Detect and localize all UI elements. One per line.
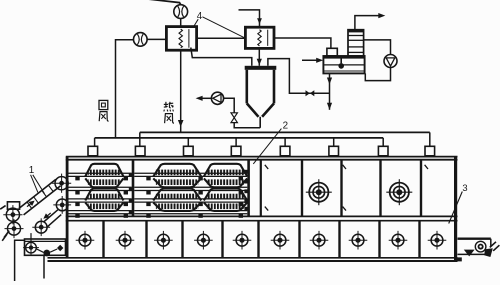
tension roller (solid) [43, 250, 50, 257]
svg-text:3: 3 [462, 182, 467, 193]
material lens col2 row1 [153, 164, 201, 177]
material lens col2 row2 [153, 189, 201, 201]
wire: exhaust to top-left [146, 0, 181, 5]
chamber wall x=380.5 [379, 160, 381, 217]
lower cell wall x=379.5 [378, 221, 380, 258]
tail bracket [7, 202, 19, 209]
roof vent stub x=236.1 [231, 146, 241, 156]
tail pulley A [6, 208, 19, 221]
roof vent stub x=188.3 [184, 146, 194, 156]
wire: hot air duct down to dryer [180, 50, 182, 132]
take-up frame [25, 239, 66, 255]
roof vent stub x=140.2 [135, 146, 145, 156]
valve V1 (solid bowtie) [306, 90, 310, 96]
lower cell wall x=258.5 [257, 221, 259, 258]
roof vent stub x=429.8 [425, 146, 435, 156]
lower cell wall x=182.5 [181, 221, 183, 258]
pump P1 (circle-triangle) [211, 92, 223, 104]
lower blower symbol x=125.0 [119, 234, 131, 246]
material lens col1 row1 [85, 164, 123, 177]
incline cleat ticks [27, 202, 32, 209]
roof vent stub x=92.8 [88, 146, 98, 156]
lower cell wall x=339.5 [338, 221, 340, 258]
pump P2 (circle-triangle) [384, 55, 397, 68]
mid pulley [56, 199, 68, 211]
material lens col3 row2 [204, 189, 247, 201]
fan target symbol (upper cell A) [309, 183, 328, 202]
fan B1 (return air blower) [134, 33, 148, 47]
wire: header riser x=188.3 [187, 138, 189, 146]
third pulley [35, 221, 47, 233]
lower blower symbol x=358.0 [352, 234, 364, 246]
lower blower symbol x=163.4 [158, 234, 170, 246]
wire: heater 4b to condenser small box [274, 38, 331, 48]
tray end tabs on walls [244, 170, 248, 174]
lower blower symbol x=242.0 [236, 234, 248, 246]
hatch strokes [490, 242, 496, 248]
lower cell wall x=299.5 [298, 221, 300, 258]
dryer top band [66, 156, 458, 158]
wire: fan B1 to heater [147, 38, 166, 40]
svg-text:2: 2 [283, 120, 288, 131]
lower blower symbol x=85.0 [79, 234, 91, 246]
chamber wall x=133.0 [132, 160, 135, 217]
wire: heater 4a to heater 4b [197, 37, 246, 39]
belt path lines [36, 249, 43, 253]
wire: cyclone vent to drain line [268, 59, 330, 94]
roof vent stub x=383.2 [378, 146, 388, 156]
wire: vessel drain with arrows [329, 73, 331, 109]
wire: heater 4b down to cyclone, with arrow [258, 48, 260, 65]
wire: header riser x=285.1 [284, 138, 286, 146]
heater box 4 (right) [245, 27, 274, 48]
material lens col1 row2 [85, 189, 123, 201]
wire: return air duct [116, 40, 134, 138]
chamber wall x=260.8 [260, 160, 262, 217]
weld tick marks [265, 165, 268, 169]
lower blower symbol x=398.0 [392, 234, 404, 246]
lower cell wall x=103.5 [102, 221, 104, 258]
dryer right wall [454, 157, 457, 261]
belt arrow down [43, 213, 49, 218]
discharge conveyor frame [458, 237, 491, 239]
wire: header riser x=236.1 [235, 138, 237, 146]
finned stack on vessel [348, 30, 364, 56]
cyclone separator [245, 66, 277, 70]
condensate vessel [323, 56, 364, 73]
wire: pump P1 discharge [200, 97, 212, 99]
chamber wall x=248.6 [247, 160, 250, 217]
scraper (solid) [464, 250, 475, 257]
label: return air (hui feng) [99, 100, 108, 109]
label: hot air (re feng) [164, 103, 168, 105]
vessel float fitting [338, 63, 344, 69]
belt arrow up [28, 201, 34, 206]
valve V2 (vertical) [231, 118, 237, 123]
lower incline rails [44, 210, 58, 222]
chamber wall x=341.5 [340, 160, 342, 217]
roof vent stub x=333.7 [329, 146, 339, 156]
wire: heater 4a to cyclone lid [191, 48, 252, 66]
wire: pump P2 return to vessel [365, 68, 390, 81]
wire: inlet arrow into vessel [302, 59, 320, 61]
lower blower symbol x=437.0 [431, 234, 443, 246]
dryer bottom band [48, 257, 458, 259]
wire: stack to pump [364, 40, 391, 55]
lower cell wall x=222.5 [221, 221, 223, 258]
discharge pulley [475, 241, 486, 252]
discharge stream [484, 248, 493, 257]
dryer mid band [66, 215, 458, 217]
heater box 4 (left) [166, 27, 196, 51]
incline rails [19, 179, 56, 208]
dryer foot [455, 257, 462, 261]
upper air header [140, 131, 430, 133]
tray support tabs [75, 176, 79, 180]
svg-text:1: 1 [29, 165, 34, 176]
fan target symbol (upper cell B) [390, 183, 409, 202]
lower blower symbol x=203.4 [198, 234, 210, 246]
chute marks [4, 231, 9, 238]
wire: header riser x=333.7 [333, 138, 335, 146]
chamber wall x=302.0 [301, 160, 303, 217]
wire: fresh air inlet to heater 4b [239, 10, 260, 27]
lower cell wall x=419.5 [418, 221, 420, 258]
wire: cyclone underflow pipe [234, 123, 260, 128]
fitting box on vessel top [327, 48, 337, 56]
guide block (diamond) [57, 245, 63, 251]
dryer left wall [66, 157, 69, 258]
take-up roller [26, 242, 37, 253]
head pulley [55, 177, 68, 190]
wire: heater to top fan [180, 18, 182, 26]
fan B2 (exhaust fan) [174, 5, 188, 19]
belt tray lines [69, 172, 132, 174]
lower cell wall x=146.5 [145, 221, 147, 258]
tail pulley B [8, 222, 21, 235]
wire: stack vent to atmosphere [355, 16, 381, 30]
material lens col3 row1 [204, 164, 247, 177]
chamber wall x=421.0 [420, 160, 422, 217]
support lines [15, 240, 25, 281]
roof vent stub x=285.1 [280, 146, 290, 156]
lower blower symbol x=280.0 [274, 234, 286, 246]
lower blower symbol x=319.0 [313, 234, 325, 246]
lower air header [95, 137, 384, 139]
